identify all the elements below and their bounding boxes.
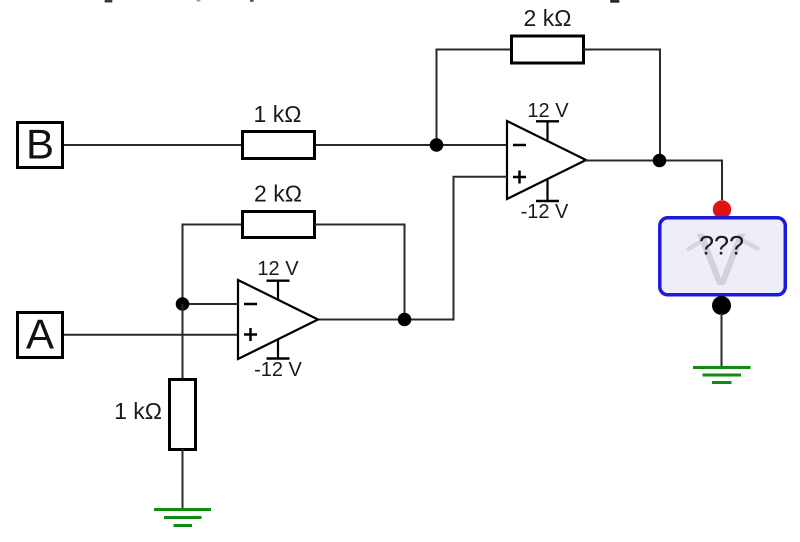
terminal B: [18, 121, 63, 168]
svg-text:-12 V: -12 V: [254, 359, 302, 381]
voltmeter M1 red (+) terminal: [713, 200, 731, 218]
terminal A: [18, 311, 63, 358]
cropped caption descender fragment 4: [610, 0, 620, 3]
junction node at U1 inverting input: [176, 297, 190, 311]
svg-text:-12 V: -12 V: [521, 201, 569, 223]
wire inverting node down to R2: [182, 304, 184, 380]
ground symbol (right): [693, 368, 751, 383]
svg-text:B: B: [26, 121, 54, 168]
wire node to U1 inverting input: [183, 303, 239, 305]
resistor R4 2 kOhm (feedback U1): [243, 212, 315, 238]
junction node on U2 inverting input: [430, 138, 444, 152]
cropped caption descender fragment 3: [250, 0, 254, 2]
cropped caption descender fragment 1: [105, 0, 113, 3]
resistor R1 1 kOhm (input B): [243, 132, 315, 159]
wire R1 to U2 inverting input: [316, 144, 507, 146]
wire R2 to ground: [182, 449, 184, 510]
wire feedback left branch (node up and over to R3): [437, 50, 513, 146]
feedback loop U1: node up to R2f: [183, 225, 243, 305]
U2 negative supply pin -12 V: [521, 179, 569, 223]
voltmeter needle whisker right: [740, 239, 758, 249]
cropped caption descender fragment 2: [197, 0, 201, 2]
svg-text:12 V: 12 V: [527, 100, 569, 122]
U2 positive supply pin 12 V: [527, 100, 569, 141]
U1 positive supply pin 12 V: [257, 258, 299, 301]
op-amp U1: [238, 280, 318, 359]
junction node at U1 output: [398, 313, 412, 327]
wire B to R1: [64, 144, 242, 146]
wire A to U1 non-inverting input: [64, 334, 238, 336]
voltmeter M1 body: [660, 218, 786, 301]
op-amp U2: [507, 121, 586, 199]
wire U1 output to U2 non-inverting input: [318, 177, 507, 320]
wire U2 output to voltmeter: [586, 161, 722, 201]
svg-text:2 kΩ: 2 kΩ: [524, 5, 572, 31]
svg-text:???: ???: [699, 231, 744, 261]
wire R3 to U2 output node: [583, 50, 660, 161]
svg-text:1 kΩ: 1 kΩ: [254, 101, 302, 127]
U1 negative supply pin -12 V: [254, 339, 302, 381]
voltmeter M1 black (-) terminal: [712, 296, 731, 315]
junction node at U2 output: [653, 154, 667, 168]
voltmeter needle whisker left: [689, 239, 706, 249]
svg-text:A: A: [26, 311, 54, 358]
wire voltmeter to ground: [721, 313, 723, 368]
resistor R2 1 kOhm (to ground): [170, 380, 196, 450]
wire R4 to U1 output node: [315, 225, 405, 320]
resistor R3 2 kOhm (feedback U2): [512, 36, 584, 63]
svg-text:2 kΩ: 2 kΩ: [254, 181, 302, 207]
svg-text:1 kΩ: 1 kΩ: [114, 398, 162, 424]
svg-text:12 V: 12 V: [257, 258, 299, 280]
ground symbol (left): [154, 510, 211, 526]
